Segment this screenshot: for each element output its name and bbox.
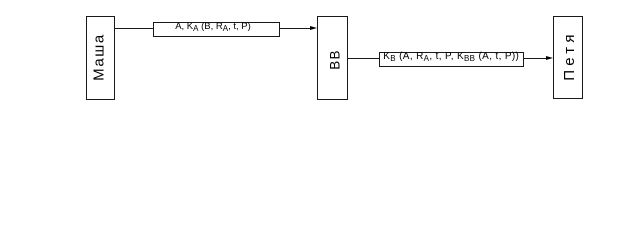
wire BB to Петя bbox=[348, 58, 547, 59]
wire A to BB bbox=[115, 28, 311, 29]
label ВВ bbox=[324, 17, 344, 101]
arrowhead into BB bbox=[310, 26, 317, 30]
label Маша bbox=[88, 15, 108, 99]
message label box 1 bbox=[153, 22, 280, 37]
actor box Маша bbox=[86, 16, 115, 100]
arrowhead into Петя bbox=[546, 56, 553, 60]
message label box 2 bbox=[379, 52, 525, 67]
label Петя bbox=[559, 13, 579, 97]
actor box ВВ bbox=[317, 16, 348, 100]
actor box Петя bbox=[553, 16, 583, 99]
